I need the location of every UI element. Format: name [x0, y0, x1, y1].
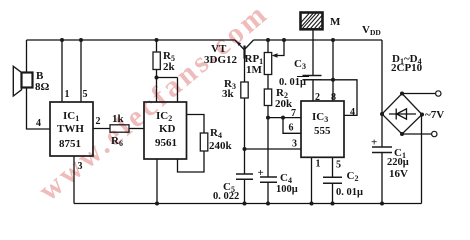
wire motor lead down to C3: [312, 29, 314, 75]
IC3 555 box: [301, 101, 344, 157]
svg-text:2: 2: [96, 116, 101, 127]
svg-text:1: 1: [316, 159, 321, 170]
wire R5 node to IC2 top pins: [157, 78, 178, 103]
wire speaker top lead: [26, 40, 28, 73]
wire C2 bottom lead: [332, 183, 334, 203]
resistor R3 body: [241, 82, 248, 98]
svg-text:6: 6: [289, 123, 294, 134]
svg-text:9561: 9561: [155, 137, 177, 149]
wire bridge AC bottom terminal: [402, 133, 432, 135]
IC2 KD9561 box: [144, 102, 187, 159]
wire top rail left section: [27, 39, 236, 41]
wire IC1 pin3 to ground rail: [73, 156, 75, 204]
wire R5 top lead: [156, 40, 158, 52]
svg-text:555: 555: [314, 125, 331, 137]
bridge rectifier D1-D4 diamond: [382, 94, 422, 135]
wire IC2 right pin to R4 top: [187, 115, 205, 134]
capacitor C5 plates: [236, 174, 253, 179]
svg-text:~7V: ~7V: [425, 109, 444, 121]
svg-text:5: 5: [83, 89, 88, 100]
svg-text:8: 8: [331, 92, 336, 103]
wire bridge AC top terminal: [402, 93, 436, 95]
wire 555 pin5 to C2: [332, 157, 334, 177]
capacitor C2 plates: [323, 177, 342, 183]
svg-text:3DG12: 3DG12: [204, 54, 238, 66]
svg-text:220μ: 220μ: [387, 157, 409, 168]
AC terminal top circle: [436, 91, 441, 96]
svg-text:3k: 3k: [222, 88, 235, 100]
svg-text:0. 022: 0. 022: [213, 191, 239, 202]
wire R3 bottom to 555 pin3 node: [244, 98, 246, 149]
svg-text:2k: 2k: [163, 61, 176, 73]
capacitor C4 plates: [260, 177, 277, 182]
speaker B cone: [13, 66, 21, 96]
svg-text:4: 4: [350, 107, 355, 118]
wire 555 pin3: [245, 148, 302, 150]
wire RP1 wiper to rail: [274, 40, 285, 56]
svg-text:3: 3: [78, 161, 83, 172]
svg-text:5: 5: [336, 160, 341, 171]
wire R6 to IC2: [129, 128, 144, 130]
motor M hatched box: [301, 13, 323, 30]
IC1 TWH8751 box: [50, 102, 93, 156]
wire Vdd vertical down to bridge + C1: [381, 40, 383, 147]
svg-text:+: +: [371, 137, 377, 149]
svg-text:4: 4: [36, 118, 41, 129]
wire R2 bottom lead to pin7 node: [267, 106, 269, 118]
wire IC1 pin2 to R6: [93, 128, 110, 130]
resistor R4 body: [200, 133, 208, 151]
capacitor C3 plates: [303, 76, 322, 80]
wire ground rail: [74, 203, 422, 205]
resistor R5 body: [153, 52, 160, 70]
resistor R6 body: [110, 125, 129, 132]
potentiometer RP1 body: [264, 53, 271, 75]
wire C4 bottom lead: [267, 182, 269, 203]
svg-text:M: M: [330, 16, 341, 28]
wire C1 bottom lead: [381, 153, 383, 204]
svg-text:0. 01μ: 0. 01μ: [279, 77, 306, 88]
wire 555 pin7: [268, 117, 301, 119]
svg-text:KD: KD: [159, 123, 176, 135]
capacitor C1 plates: [372, 147, 392, 153]
svg-text:240k: 240k: [209, 140, 233, 152]
wire 555 pin1 to ground rail: [311, 157, 313, 203]
svg-text:0. 01μ: 0. 01μ: [336, 187, 363, 198]
potentiometer RP1 wiper arrow: [272, 53, 278, 57]
watermark www.elecfans.com: [32, 0, 275, 207]
svg-text:3: 3: [292, 139, 297, 150]
wire IC2 bottom pin to ground rail: [156, 159, 158, 204]
svg-text:8751: 8751: [59, 138, 81, 150]
wire speaker bottom lead to IC1 pin4: [27, 88, 51, 130]
AC terminal bottom circle: [432, 131, 437, 136]
svg-text:1M: 1M: [246, 64, 263, 76]
svg-text:2: 2: [315, 92, 320, 103]
wire bridge minus vertical: [421, 115, 423, 204]
resistor R2 body: [264, 89, 271, 106]
wire IC1 pin5 to rail: [80, 40, 82, 102]
speaker B coil box: [22, 73, 33, 88]
wire top rail right section to Vdd corner: [254, 39, 383, 41]
svg-text:7: 7: [291, 108, 296, 119]
wire 555 pin6 loop: [283, 118, 301, 134]
bridge internal diode: [389, 109, 416, 120]
svg-text:1: 1: [65, 89, 70, 100]
wire C4 top lead: [267, 118, 269, 177]
wire R5 bottom lead: [156, 70, 158, 78]
wire RP1 to R2: [267, 75, 269, 90]
wire C3 node to 555 pin4: [322, 80, 358, 116]
svg-text:100μ: 100μ: [276, 184, 298, 195]
transistor VT 3DG12: [235, 40, 254, 59]
wire IC2 bottom pin to R4 bottom: [178, 151, 205, 172]
wire RP1 top lead: [267, 40, 269, 53]
wire C5 leads: [244, 149, 246, 204]
svg-text:TWH: TWH: [57, 123, 84, 135]
svg-text:8Ω: 8Ω: [35, 81, 50, 93]
svg-text:2CP10: 2CP10: [391, 62, 423, 74]
wire C3 bottom to 555 pin2: [312, 80, 314, 101]
svg-text:16V: 16V: [389, 168, 408, 180]
wire IC1 pin1 to rail: [61, 40, 63, 102]
wire VT base lead to R3: [244, 59, 246, 83]
wire rail to 555 pin8: [332, 40, 334, 101]
svg-text:+: +: [258, 167, 264, 179]
svg-text:1k: 1k: [112, 113, 125, 125]
